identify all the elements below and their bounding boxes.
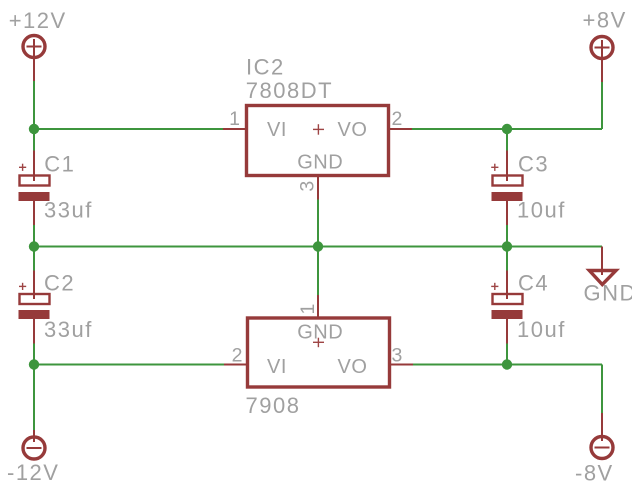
svg-text:C3: C3: [518, 152, 549, 177]
junction mid rail center: [313, 241, 323, 251]
polarity mark C3: [491, 164, 498, 171]
svg-text:GND: GND: [297, 322, 343, 344]
svg-text:33uf: 33uf: [44, 317, 93, 342]
IC2 pin 1 stub: [223, 128, 246, 130]
junction node B: [502, 124, 512, 134]
wire node A to C1: [33, 129, 35, 151]
svg-text:2: 2: [232, 345, 243, 367]
svg-text:C1: C1: [44, 152, 75, 177]
supply -12V: [23, 430, 45, 459]
IC2 pin 3 stub: [317, 176, 319, 200]
svg-text:VO: VO: [338, 356, 368, 378]
supply -8V: [591, 413, 613, 459]
svg-text:IC2: IC2: [246, 55, 285, 80]
wire node B to C3: [506, 129, 508, 151]
supply +12V: [23, 36, 45, 82]
IC2 box: [247, 106, 389, 176]
7908 origin cross: [313, 338, 324, 348]
wire C1 to node C: [33, 225, 35, 247]
ground symbol GND: [589, 271, 616, 285]
svg-text:10uf: 10uf: [517, 197, 566, 222]
wire -8V stem: [601, 365, 603, 414]
regulator 7908 box: [248, 318, 390, 387]
wire node E to 7908 pin 2: [34, 364, 224, 366]
junction node A: [29, 124, 39, 134]
junction node E: [29, 359, 39, 369]
junction node D: [502, 241, 512, 251]
svg-text:GND: GND: [584, 281, 632, 306]
wire IC2 VO to +8V: [412, 128, 602, 130]
svg-text:C4: C4: [518, 271, 549, 296]
svg-text:3: 3: [392, 345, 403, 367]
svg-text:7908: 7908: [246, 393, 301, 418]
wire IC2 GND to mid rail: [317, 200, 319, 247]
wire +8V stem: [601, 82, 603, 129]
wire node E to -12V: [33, 365, 35, 431]
svg-text:10uf: 10uf: [517, 317, 566, 342]
svg-text:1: 1: [229, 108, 240, 130]
wire mid rail to 7908 GND: [317, 247, 319, 296]
supply +8V: [591, 37, 613, 83]
junction node F: [502, 359, 512, 369]
polarity mark C1: [19, 164, 26, 171]
svg-text:VO: VO: [338, 119, 368, 141]
7908 pin 2 stub: [224, 364, 247, 366]
wire +12V to node A: [33, 81, 35, 129]
svg-text:3: 3: [297, 181, 319, 192]
mid ground rail wire: [34, 246, 602, 248]
capacitor C4: [492, 271, 523, 344]
wire node A to IC2 pin 1: [34, 128, 223, 130]
junction node C: [29, 241, 39, 251]
svg-text:2: 2: [392, 108, 403, 130]
capacitor C3: [492, 151, 523, 226]
svg-text:+8V: +8V: [583, 8, 627, 33]
wire C4 to node F: [506, 344, 508, 365]
svg-text:1: 1: [297, 304, 319, 315]
wire node C to C2: [33, 247, 35, 271]
svg-text:VI: VI: [267, 119, 287, 141]
svg-text:GND: GND: [297, 152, 343, 174]
svg-text:VI: VI: [267, 356, 287, 378]
wire C2 to node E: [33, 344, 35, 365]
svg-text:+12V: +12V: [9, 8, 67, 33]
svg-text:-8V: -8V: [575, 461, 614, 486]
polarity mark C4: [491, 283, 498, 290]
7908 pin 3 stub: [390, 364, 413, 366]
capacitor C2: [19, 271, 50, 344]
svg-text:7808DT: 7808DT: [246, 78, 333, 103]
svg-text:C2: C2: [44, 271, 75, 296]
capacitor C1: [19, 151, 50, 226]
polarity mark C2: [19, 283, 26, 290]
wire C3 to node D: [506, 225, 508, 247]
wire node D to C4: [506, 247, 508, 271]
wire 7908 VO to -8V: [413, 364, 602, 366]
svg-text:33uf: 33uf: [44, 197, 93, 222]
IC2 origin cross: [313, 124, 324, 135]
7908 pin 1 stub: [317, 295, 319, 318]
svg-text:-12V: -12V: [7, 460, 59, 485]
IC2 pin 2 stub: [389, 128, 412, 130]
gnd stem wire: [601, 247, 603, 276]
